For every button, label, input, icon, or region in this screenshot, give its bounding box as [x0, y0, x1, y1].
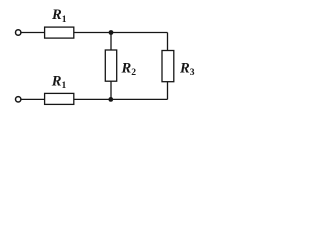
- wire: [74, 98, 168, 100]
- node B (bottom junction): [108, 97, 113, 102]
- terminal (bottom-left input): [16, 97, 21, 102]
- terminal (top-left input): [16, 30, 21, 35]
- resistor R3: [162, 51, 174, 82]
- wire: [74, 32, 168, 34]
- wire: [167, 33, 169, 51]
- wire: [21, 32, 44, 34]
- resistor R1 (bottom): [45, 93, 74, 104]
- wire: [110, 33, 112, 51]
- node A (top junction): [109, 30, 114, 35]
- resistor R2: [105, 50, 116, 81]
- wire: [167, 82, 169, 100]
- wire: [21, 98, 44, 100]
- wire: [110, 81, 112, 99]
- resistor R1 (top): [45, 27, 74, 38]
